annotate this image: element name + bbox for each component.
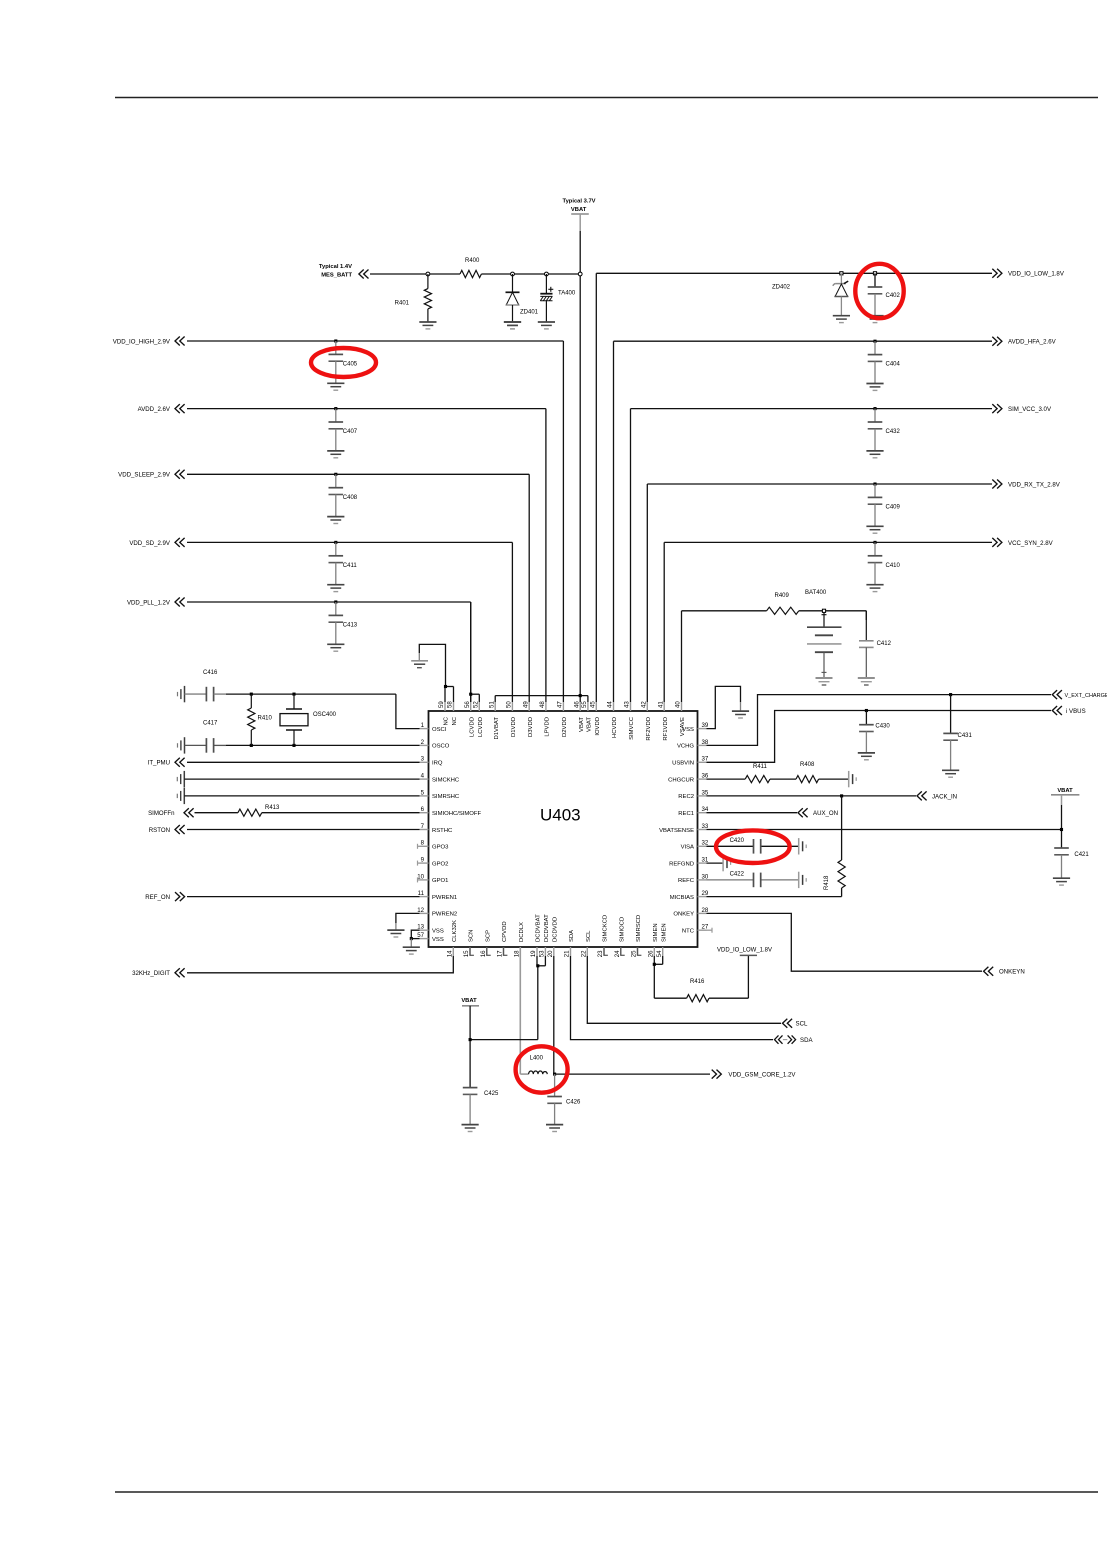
svg-text:C425: C425 [484,1091,499,1097]
capacitor C402 [866,272,900,323]
wire net RSTON [187,829,420,831]
capacitor C431 [942,695,973,778]
svg-text:44: 44 [607,701,614,708]
svg-text:USBVIN: USBVIN [672,761,694,767]
svg-text:VDD_RX_TX_2.8V: VDD_RX_TX_2.8V [1008,481,1061,488]
wire pins59-58 NC to ground [419,644,453,702]
svg-text:48: 48 [539,701,546,708]
power VBAT top label [562,199,595,215]
svg-text:C405: C405 [343,362,358,368]
svg-text:REFGND: REFGND [669,861,694,867]
svg-text:20: 20 [547,950,554,957]
wire net ONKEYN [707,913,983,971]
svg-text:GPO1: GPO1 [432,878,448,884]
diode ZD402 zener [772,272,850,323]
U403 left pin names and numbers [417,722,481,943]
ground under BAT400 [816,678,833,685]
net label SCL [783,1019,808,1028]
ground left of C417 [178,737,185,753]
svg-text:SIMIOCD: SIMIOCD [619,917,625,942]
wire net VCC_SYN_2.8V [664,542,992,702]
wire net VDD_SLEEP_2.9V [187,474,529,702]
net label JACK_IN [917,791,957,800]
wire pins26-54 SIMEN bracket [654,956,662,998]
wire SIMCKCD stub [604,947,608,955]
crystal OSC400 [280,694,337,745]
wire CPVDD stub [503,947,507,955]
svg-text:AUX_ON: AUX_ON [813,810,838,817]
capacitor C407 [327,407,358,458]
capacitor C430 [858,711,891,760]
ground right of REFGND [723,855,731,871]
wire GPO3 stub [418,844,420,849]
svg-text:C430: C430 [875,724,890,730]
ground left of C416 [178,686,185,702]
ground under R401 [419,322,436,329]
wire net SIMEN to R416 [654,955,748,998]
inductor L400 [529,1056,548,1075]
svg-text:LPVDD: LPVDD [545,717,551,737]
node VBATSENSE-VBAT junction [1060,828,1063,831]
markup red circle around C405 [311,348,376,377]
capacitor C413 [327,600,358,651]
wire net AVDD_HFA_2.6V [614,341,993,702]
svg-text:DCDVBAT: DCDVBAT [536,914,542,942]
node ZD401-MESBATT junction [511,272,515,276]
svg-text:59: 59 [438,701,445,708]
wire net AVDD_2.6V [187,409,546,702]
wire net OSCI [226,694,420,729]
svg-text:41: 41 [657,701,664,708]
wire net SDA [571,956,774,1040]
svg-text:ZD401: ZD401 [520,310,539,316]
svg-text:VSAVE: VSAVE [680,717,686,736]
svg-text:SIMCKHC: SIMCKHC [432,777,460,783]
svg-text:D1VDD: D1VDD [511,717,517,737]
svg-text:GPO2: GPO2 [432,861,448,867]
net label VDD_SD_2.9V [129,538,184,547]
svg-text:SDA: SDA [569,930,575,942]
svg-text:REC1: REC1 [678,811,694,817]
svg-text:VDD_SLEEP_2.9V: VDD_SLEEP_2.9V [118,472,171,479]
svg-text:23: 23 [597,950,604,957]
wire net SIMOFFn [195,812,420,814]
wire pin39 VSS to ground [707,686,741,728]
svg-text:REC2: REC2 [678,794,694,800]
wire net VDD_SD_2.9V [187,542,512,702]
svg-text:14: 14 [447,950,454,957]
wire net JACK_IN [707,795,917,797]
svg-text:R411: R411 [753,764,768,770]
wire net VDD_IO_HIGH_2.9V [187,341,563,702]
svg-text:R400: R400 [465,258,480,264]
capacitor C412 [859,611,892,678]
wire SCP stub [487,947,491,955]
ground at pin39 [732,711,749,718]
node R401-MESBATT junction [426,272,430,276]
svg-text:R413: R413 [265,805,280,811]
svg-text:ONKEY: ONKEY [673,912,694,918]
net label VDD_IO_LOW_1.8V [992,269,1065,278]
wire pin13 pin57 VSS [411,930,419,938]
U403 pin leads [420,702,707,956]
capacitor C420 [730,838,761,854]
wire net OSCO [214,744,420,746]
svg-text:SIMEN: SIMEN [661,923,667,942]
svg-text:SDA: SDA [800,1037,813,1044]
ground under C412 [858,678,875,685]
svg-text:22: 22 [581,950,588,957]
svg-text:C404: C404 [886,362,901,368]
svg-text:VBATSENSE: VBATSENSE [659,828,694,834]
capacitor TA400 tantalum [540,274,576,322]
svg-text:MICBIAS: MICBIAS [670,895,694,901]
svg-text:LCVDD: LCVDD [478,717,484,737]
svg-text:HCVDD: HCVDD [612,717,618,738]
op-amp U403 IC body [429,711,698,947]
svg-text:REF_ON: REF_ON [145,894,170,901]
wire SCN stub [470,947,474,955]
svg-text:C407: C407 [343,429,358,435]
ground under C425 [462,1125,479,1132]
wire pin12 PWREN2 to ground [396,913,420,930]
wire net MICBIAS [707,896,842,898]
svg-text:VBAT: VBAT [587,717,593,732]
net label MES_BATT [319,264,369,279]
wire net SIMCKHC [184,778,419,780]
svg-text:47: 47 [557,701,564,708]
svg-text:SCL: SCL [796,1021,808,1028]
svg-text:IT_PMU: IT_PMU [148,760,170,767]
svg-text:54: 54 [656,950,663,957]
capacitor C426 [546,1074,581,1131]
svg-text:AVDD_HFA_2.6V: AVDD_HFA_2.6V [1008,339,1057,346]
power VBAT right label [1051,788,1079,795]
svg-text:19: 19 [530,950,537,957]
ground left of SIMRSHC [177,788,184,804]
svg-text:C412: C412 [877,641,892,647]
wire net REFGND [707,862,724,864]
svg-text:PWREN1: PWREN1 [432,895,457,901]
svg-text:LCVDD: LCVDD [469,717,475,737]
svg-text:21: 21 [564,950,571,957]
net label SIMOFFn [148,808,194,817]
wire net CHGCUR [707,778,849,780]
node OSC400 top junction [292,693,295,696]
net label i VBUS [1052,706,1085,715]
markup red circle around C420 [716,830,790,863]
svg-text:VDD_SD_2.9V: VDD_SD_2.9V [129,540,171,547]
resistor R410 [248,694,273,745]
svg-text:VDD_IO_LOW_1.8V: VDD_IO_LOW_1.8V [717,948,772,954]
svg-text:C409: C409 [886,505,901,511]
wire net REF_ON [187,896,420,898]
svg-text:VSS: VSS [432,929,444,935]
wire net V_EXT_CHARGE [707,695,1052,746]
net label VDD_SLEEP_2.9V [118,470,184,479]
wire net IT_PMU [187,761,420,763]
U403 bottom pin names and numbers [447,914,668,957]
resistor R418 [824,796,845,897]
svg-text:VCC_SYN_2.8V: VCC_SYN_2.8V [1008,540,1054,547]
svg-text:R410: R410 [258,716,273,722]
wire VBAT bracket pins51-46-55 [495,696,588,702]
ground at VSS [403,947,420,954]
net label REF_ON [145,892,184,901]
node R410 bottom junction [250,744,253,747]
svg-text:56: 56 [464,701,471,708]
capacitor C408 [327,473,358,524]
svg-text:C410: C410 [886,563,901,569]
capacitor C421 [1053,848,1090,885]
svg-text:SCP: SCP [485,930,491,942]
capacitor C425 [463,1088,499,1125]
svg-text:NTC: NTC [682,929,695,935]
node C431 junction [949,693,952,696]
wire net VBATSENSE [707,829,1062,831]
net label ONKEYN [984,967,1025,976]
svg-text:CLK32K: CLK32K [452,920,458,942]
svg-text:VBAT: VBAT [461,998,477,1004]
svg-text:45: 45 [590,701,597,708]
net label SDA [775,1035,814,1044]
node VBAT-MESBATT junction [578,272,582,276]
node R418 top junction [840,794,843,797]
svg-text:VSS: VSS [432,937,444,943]
svg-text:VDD_GSM_CORE_1.2V: VDD_GSM_CORE_1.2V [728,1072,796,1079]
wire net SIMRSHC [184,795,419,797]
wire SIMRSCD stub [637,947,641,955]
power VBAT bottom label [461,998,479,1006]
svg-text:55: 55 [581,701,588,708]
wire net VDD_RX_TX_2.8V [647,484,992,702]
node BAT400 junction [822,609,825,612]
node L400 output junction [553,1073,556,1076]
svg-text:32KHz_DIGIT: 32KHz_DIGIT [132,970,170,977]
svg-text:58: 58 [447,701,454,708]
svg-text:GPO3: GPO3 [432,845,449,851]
svg-text:16: 16 [480,950,487,957]
svg-text:IRQ: IRQ [432,761,443,767]
wire net AUX_ON [707,812,798,814]
wire net REFC [707,879,799,881]
resistor R411 [745,764,770,783]
capacitor C432 [866,407,900,458]
svg-text:VBAT: VBAT [579,717,585,732]
svg-text:DCDVBAT: DCDVBAT [544,914,550,942]
svg-text:C416: C416 [203,670,218,676]
svg-text:25: 25 [631,950,638,957]
resistor R401 [395,274,432,322]
svg-text:53: 53 [539,950,546,957]
resistor R416 [687,979,709,1002]
wire VBAT right lead [1061,795,1063,848]
wire net VISA [707,845,799,847]
diode ZD401 [504,274,539,329]
svg-text:SIMCKCD: SIMCKCD [603,915,609,942]
net label AVDD_2.6V [138,404,185,413]
svg-text:AVDD_2.6V: AVDD_2.6V [138,406,171,413]
svg-text:C411: C411 [343,563,358,569]
net label IT_PMU [148,758,185,767]
svg-text:15: 15 [463,950,470,957]
capacitor C422 [730,871,761,887]
wire net VDD_PLL_1.2V [187,602,471,702]
svg-text:D3VDD: D3VDD [528,717,534,737]
svg-text:SCL: SCL [586,930,592,942]
svg-text:ONKEYN: ONKEYN [999,969,1025,976]
wire net DCDVDD [553,956,555,1074]
svg-text:NC: NC [452,716,458,725]
node SIMEN junction [653,963,656,966]
svg-text:Typical 1.4V: Typical 1.4V [319,264,352,270]
net label VDD_RX_TX_2.8V [992,480,1060,489]
node NC junction [444,685,447,688]
svg-text:C402: C402 [886,293,901,299]
wire net SCL [587,956,781,1023]
power VDD_IO_LOW label at R416 [717,948,772,956]
svg-text:i VBUS: i VBUS [1066,708,1086,715]
wire VBAT bottom [470,1006,538,1088]
svg-text:51: 51 [488,701,495,708]
net label RSTON [149,825,185,834]
svg-text:VBAT: VBAT [1057,788,1073,794]
resistor R413 [238,805,280,816]
wire net MES_BATT [370,273,580,275]
svg-text:R416: R416 [690,979,705,985]
svg-text:40: 40 [675,701,682,708]
svg-text:IOVDD: IOVDD [595,717,601,736]
node R410 top junction [250,693,253,696]
svg-text:C417: C417 [203,721,218,727]
node VSS junction [410,937,413,940]
ground right of R408 [849,771,857,787]
svg-text:C413: C413 [343,623,358,629]
node TA400-MESBATT junction [545,272,549,276]
net label VDD_GSM_CORE_1.2V [712,1070,797,1079]
wire net VSAVE [682,611,867,702]
resistor R400 [460,258,481,278]
capacitor C405 [327,339,358,390]
net label VCC_SYN_2.8V [992,538,1053,547]
markup red circle around C402 [855,264,903,318]
resistor R408 [796,762,819,783]
svg-text:VDD_IO_HIGH_2.9V: VDD_IO_HIGH_2.9V [113,338,171,345]
svg-text:D1VBAT: D1VBAT [494,717,500,740]
svg-text:C422: C422 [730,871,745,877]
capacitor C416 [185,670,227,701]
svg-text:CPVDD: CPVDD [502,921,508,942]
node VBAT bracket junction [579,694,582,697]
net label VDD_IO_HIGH_2.9V [113,337,185,346]
svg-text:BAT400: BAT400 [805,590,827,596]
svg-text:24: 24 [614,950,621,957]
wire GPO1 stub [418,877,420,882]
battery BAT400 [805,590,842,678]
resistor R409 [767,593,799,614]
svg-text:TA400: TA400 [558,290,576,296]
ground under TA400 [538,322,555,329]
ground at NC loop [411,661,428,668]
capacitor C404 [866,340,900,391]
svg-text:SIM_VCC_3.0V: SIM_VCC_3.0V [1008,406,1052,413]
wire pins19-53 DCDVBAT bracket [537,956,545,1040]
svg-text:C408: C408 [343,495,358,501]
capacitor C410 [866,541,900,592]
svg-text:43: 43 [624,701,631,708]
svg-text:RF1VDD: RF1VDD [663,717,669,741]
svg-text:MES_BATT: MES_BATT [321,272,352,278]
svg-text:SIMEN: SIMEN [653,923,659,942]
wire SIMIOCD stub [621,947,625,955]
U403 right pin names and numbers [659,722,709,935]
svg-text:R408: R408 [800,762,815,768]
capacitor C409 [866,482,900,533]
svg-text:C432: C432 [886,429,901,435]
wire pin27 NTC stub [707,928,713,933]
net label 32KHz_DIGIT [132,968,185,977]
svg-text:OSCI: OSCI [432,727,447,733]
svg-text:ZD402: ZD402 [772,285,791,291]
net label SIM_VCC_3.0V [992,404,1052,413]
svg-text:VBAT: VBAT [571,207,587,213]
node C430 junction [865,709,868,712]
svg-text:R409: R409 [775,593,790,599]
page top border [115,97,1098,99]
svg-text:R401: R401 [395,301,410,307]
svg-text:VDD_PLL_1.2V: VDD_PLL_1.2V [127,599,171,606]
wire pins56-52 LCVDD bracket [471,602,480,702]
svg-text:18: 18 [514,950,521,957]
capacitor C411 [327,541,357,592]
svg-text:RF2VDD: RF2VDD [646,717,652,741]
U403 top pin names and numbers [438,701,686,741]
ground right of C420 [799,838,807,854]
svg-text:VISA: VISA [681,845,694,851]
svg-text:PWREN2: PWREN2 [432,912,457,918]
svg-text:49: 49 [522,701,529,708]
svg-text:C426: C426 [566,1100,581,1106]
svg-text:52: 52 [473,701,480,708]
net label V_EXT_CHARGE [1052,690,1107,699]
svg-text:SIMVCC: SIMVCC [629,716,635,740]
net label VDD_PLL_1.2V [127,598,185,607]
svg-text:REFC: REFC [678,878,695,884]
svg-text:17: 17 [497,950,504,957]
svg-text:V_EXT_CHARGE: V_EXT_CHARGE [1065,693,1107,699]
svg-text:Typical 3.7V: Typical 3.7V [562,199,595,205]
svg-text:VDD_IO_LOW_1.8V: VDD_IO_LOW_1.8V [1008,271,1065,278]
wire net 32KHz_DIGIT [187,956,453,973]
svg-text:DCDLX: DCDLX [519,922,525,942]
wire net SIM_VCC_3.0V [631,409,993,702]
ground left of SIMCKHC [177,771,184,787]
svg-text:SIMIOHC/SIMOFF: SIMIOHC/SIMOFF [432,811,481,817]
svg-text:VCHG: VCHG [677,744,694,750]
wire VSS to ground [410,939,412,948]
capacitor C417 [185,721,219,753]
svg-text:SIMRSHC: SIMRSHC [432,794,460,800]
svg-text:RSTON: RSTON [149,827,170,834]
node OSC400 bottom junction [292,744,295,747]
svg-text:C431: C431 [958,733,973,739]
svg-text:26: 26 [648,950,655,957]
node LCVDD junction [469,693,472,696]
wire net DCDLX [520,947,528,1074]
svg-text:L400: L400 [530,1056,544,1062]
svg-text:50: 50 [506,701,513,708]
node DCDVBAT junction [536,964,539,967]
